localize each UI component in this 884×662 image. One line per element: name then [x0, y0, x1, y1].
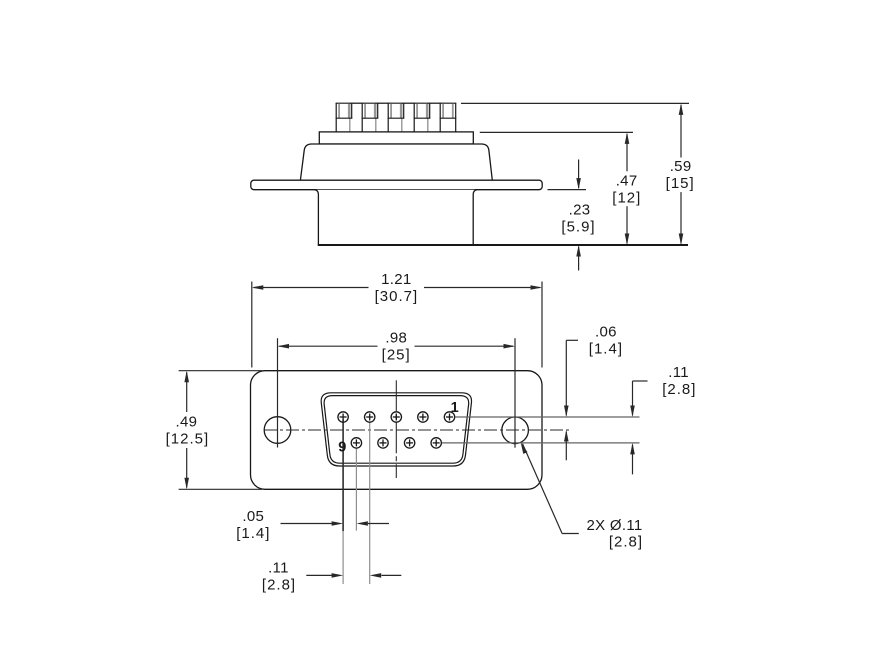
svg-text:.11: .11 — [268, 560, 289, 577]
svg-text:[2.8]: [2.8] — [609, 534, 643, 551]
leader: 2X dia .11 mounting holes — [562, 533, 579, 535]
svg-text:[30.7]: [30.7] — [375, 288, 419, 305]
svg-text:9: 9 — [338, 439, 346, 455]
side view: shell bottom edge (heavy) + extension line to dims — [318, 244, 688, 246]
svg-text:[12]: [12] — [612, 189, 641, 206]
side view: insulator header strip — [319, 132, 473, 144]
svg-text:.06: .06 — [595, 323, 617, 340]
dimension .11 [2.8] (row spacing, right) — [633, 380, 648, 382]
side view: solder-cup rear pins, back row (4 cups) — [350, 103, 444, 132]
front view: pin contacts row 2 (pins 9..6) — [351, 438, 441, 448]
leader lines from pins to lower dimensions — [342, 420, 344, 532]
side view: mounting flange (side) — [251, 180, 542, 190]
dimension .98 [25] — [277, 338, 279, 447]
svg-text:[25]: [25] — [382, 347, 411, 364]
dimension .59 [15] — [680, 105, 682, 158]
svg-text:[15]: [15] — [666, 175, 695, 192]
svg-text:1.21: 1.21 — [381, 271, 411, 288]
front view: pin contacts row 1 (pins 5..1) — [338, 412, 455, 422]
svg-text:.49: .49 — [176, 414, 198, 431]
svg-text:[1.4]: [1.4] — [589, 340, 623, 357]
dimension .05 [1.4] (pin stagger) — [281, 523, 332, 525]
front view: horizontal centerline — [264, 429, 570, 431]
side view: front shell — [315, 190, 478, 245]
front view: mounting flange outline — [251, 371, 543, 490]
svg-text:[12.5]: [12.5] — [166, 431, 210, 448]
dimension .23 [5.9] arrows — [578, 160, 580, 189]
front view: left mounting hole — [264, 417, 291, 444]
svg-text:.47: .47 — [616, 172, 638, 189]
svg-text:[5.9]: [5.9] — [561, 219, 595, 236]
svg-text:.98: .98 — [385, 330, 407, 347]
side view: solder-cup rear pins, front row (5 cups) — [336, 103, 457, 132]
svg-text:.23: .23 — [569, 202, 591, 219]
svg-text:2X Ø.11: 2X Ø.11 — [587, 517, 643, 534]
front view: right mounting hole — [502, 417, 529, 444]
extension line: pin row 2 (right) — [442, 442, 640, 444]
svg-text:1: 1 — [451, 400, 459, 416]
dimension 1.21 [30.7] — [251, 282, 253, 368]
svg-text:.59: .59 — [670, 158, 692, 175]
dimension .06 [1.4] — [566, 339, 578, 341]
front view: vertical centerline — [395, 380, 397, 478]
svg-text:[2.8]: [2.8] — [662, 381, 696, 398]
svg-text:.05: .05 — [242, 508, 264, 525]
front view: D-shell inner outline — [324, 396, 469, 464]
dimension .47 [12] — [626, 134, 628, 171]
dimension .49 [12.5] — [179, 370, 262, 372]
front view: D-shell outer outline — [321, 393, 471, 466]
svg-text:[1.4]: [1.4] — [236, 525, 270, 542]
extension line: pin row 1 (right) — [455, 416, 639, 418]
svg-text:[2.8]: [2.8] — [262, 577, 296, 594]
svg-text:.11: .11 — [668, 364, 689, 381]
side view: molded body — [300, 144, 492, 180]
extension line: pin tips top — [461, 102, 689, 104]
dimension .11 [2.8] (pin pitch, bottom) — [306, 574, 332, 576]
extension line: header strip top — [480, 131, 633, 133]
extension line: flange bottom — [548, 189, 587, 191]
